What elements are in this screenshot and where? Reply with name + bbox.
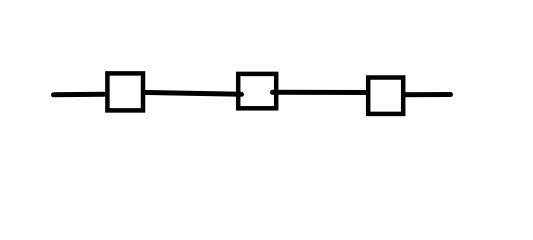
resistor R2 xyxy=(238,74,276,108)
wire xyxy=(54,92,105,98)
wire xyxy=(142,92,242,94)
wire xyxy=(403,92,451,97)
wire xyxy=(273,90,369,95)
resistor R3 xyxy=(368,78,403,114)
resistor R1 xyxy=(107,73,143,110)
